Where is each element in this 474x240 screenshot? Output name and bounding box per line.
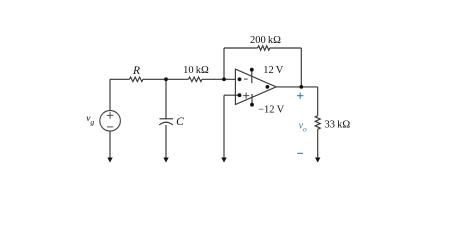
capacitor C top plate — [160, 118, 174, 120]
resistor 10 kOhm — [189, 77, 203, 82]
ground arrow (noninverting branch) — [221, 158, 226, 163]
wire feedback right vertical — [300, 48, 302, 87]
op-amp noninverting sign — [243, 93, 249, 99]
svg-text:C: C — [176, 116, 184, 128]
wire source left vertical — [109, 79, 111, 110]
svg-text:R: R — [132, 65, 140, 77]
source vg circle — [100, 111, 121, 132]
svg-text:33 kΩ: 33 kΩ — [325, 119, 351, 130]
op-amp inverting sign — [244, 78, 248, 80]
op-amp positive supply dot — [250, 68, 254, 72]
wire feedback left vertical — [223, 48, 225, 79]
output plus sign (blue) — [297, 93, 303, 99]
node B junction dot (feedback / inverting input) — [222, 77, 226, 81]
op-amp U1 triangle — [235, 69, 276, 104]
wire output vertical upper — [317, 87, 319, 116]
source minus sign — [107, 126, 113, 128]
op-amp negative supply dot — [250, 103, 254, 107]
wire output vertical lower — [317, 129, 319, 158]
ground arrow (capacitor branch) — [163, 158, 168, 163]
wire capacitor branch upper — [165, 79, 167, 119]
op-amp negative supply pin — [251, 94, 253, 105]
resistor 200 kOhm — [258, 46, 270, 51]
output minus sign (blue) — [297, 152, 303, 154]
wire feedback top — [224, 47, 301, 49]
wire below source — [109, 131, 111, 158]
wire noninverting input to ground branch — [224, 95, 240, 158]
capacitor C bottom plate (curved) — [159, 122, 173, 125]
op-amp noninverting input terminal dot — [238, 93, 242, 97]
source plus sign — [107, 112, 114, 119]
wire capacitor branch lower — [165, 125, 167, 158]
wire output — [276, 86, 318, 88]
resistor 33 kOhm (vertical) — [315, 116, 320, 130]
node C junction dot (output) — [299, 85, 303, 89]
ground arrow (output branch) — [315, 158, 320, 163]
op-amp output terminal dot — [266, 85, 270, 89]
resistor R — [130, 77, 144, 82]
svg-text:−12 V: −12 V — [258, 105, 285, 116]
ground arrow (source branch) — [107, 158, 112, 163]
wire main top: source to op-amp inverting input — [110, 78, 236, 80]
svg-text:10 kΩ: 10 kΩ — [183, 65, 209, 76]
svg-text:200 kΩ: 200 kΩ — [250, 35, 281, 46]
op-amp inverting input terminal dot — [238, 77, 242, 81]
node A junction dot (R / C / 10k) — [164, 77, 168, 81]
op-amp positive supply pin — [251, 70, 253, 84]
svg-text:12 V: 12 V — [263, 65, 284, 76]
